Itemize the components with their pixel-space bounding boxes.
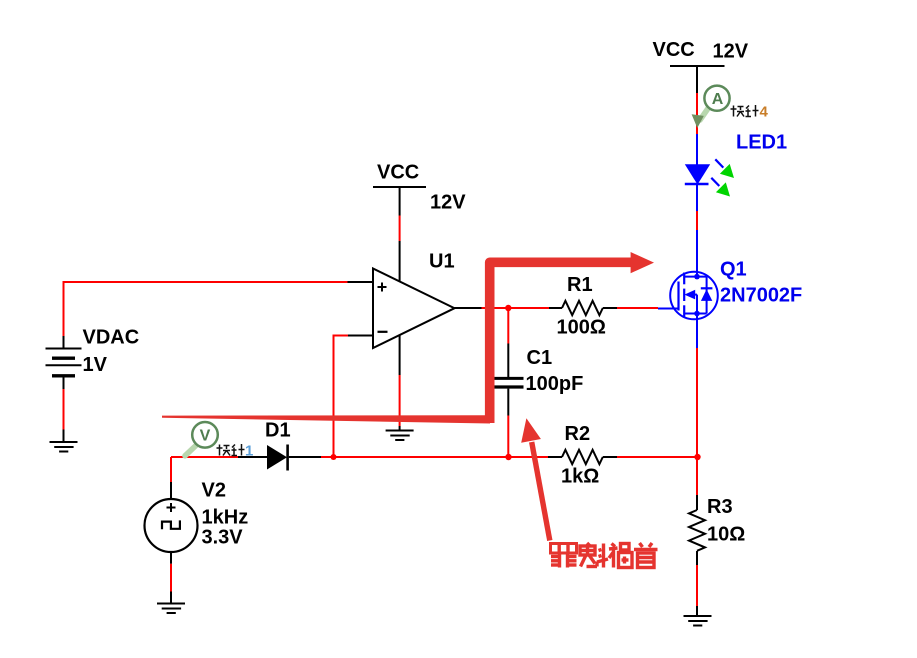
svg-text:100pF: 100pF [526, 373, 584, 395]
wire op-amp power through triangle [399, 241, 401, 375]
resistor R1 [557, 274, 606, 339]
svg-text:R1: R1 [567, 274, 593, 296]
wire VCC bar to op-amp (black lead) [399, 187, 401, 216]
capacitor C1 bottom wire (red) [507, 416, 509, 458]
node junction inverting-input / bottom rail [331, 454, 337, 460]
wire op-amp output lead (black) [455, 307, 482, 309]
wire VDAC positive lead (black) [63, 336, 65, 348]
power rail VCC (op-amp supply) [373, 162, 426, 188]
wire VDAC top lead (red) [63, 281, 65, 336]
svg-text:100Ω: 100Ω [557, 317, 606, 339]
power rail VCC (LED branch) [653, 39, 725, 66]
svg-text:4: 4 [760, 104, 769, 121]
resistor R1 lead left (black) [549, 307, 562, 309]
svg-text:V2: V2 [202, 480, 226, 502]
resistor R2 lead left (black) [548, 456, 562, 458]
wire Q1 drain lead (blue) [696, 230, 698, 277]
diode D1 [265, 420, 291, 471]
svg-text:V: V [200, 427, 211, 444]
annotation thick arrow to Q1 (elbow path) [490, 262, 632, 423]
annotation text 罪魁祸首 (char 祸) [609, 544, 632, 568]
probe A (探针4) [692, 86, 730, 128]
node junction output / C1 [505, 305, 511, 311]
wire VDAC ground lead (black) [63, 430, 65, 443]
wire R2 to R3 node (red) [617, 456, 698, 458]
svg-text:1: 1 [245, 443, 253, 460]
wire V2 to ground (red) [170, 564, 172, 592]
wire LED cathode (blue) [696, 185, 698, 211]
wire R3 to ground (red) [696, 565, 698, 606]
wire non-inverting input rail (red, from VDAC) [63, 281, 348, 283]
wire VDAC to ground (red) [63, 389, 65, 430]
wire op-amp ground lead (black) [399, 426, 401, 431]
wire non-inverting input lead (black) [348, 281, 374, 283]
svg-text:12V: 12V [713, 41, 749, 63]
wire V2 top lead (black) [170, 482, 172, 499]
svg-text:LED1: LED1 [736, 132, 787, 154]
ground (op-amp) [386, 431, 414, 441]
wire LED anode (blue) [696, 134, 698, 165]
wire bottom rail from V2 corner (red) [171, 456, 238, 458]
wire op-amp to ground (red segment) [399, 375, 401, 426]
capacitor C1 top wire (red) [507, 308, 509, 344]
wire Q1 gate lead (blue) [658, 308, 679, 310]
svg-text:10Ω: 10Ω [707, 524, 745, 546]
annotation arrow to C1 (shaft) [532, 442, 550, 541]
svg-text:1V: 1V [83, 354, 108, 376]
node junction C1 / bottom rail [505, 454, 511, 460]
wire inverting input (red corner) [334, 336, 349, 458]
wire V2 bottom lead (black) [170, 552, 172, 564]
svg-text:VCC: VCC [653, 39, 695, 61]
LED LED1 [685, 159, 734, 196]
annotation thick arrow to Q1 (tapered tail) [162, 415, 490, 423]
diode D1 anode lead (black) [238, 456, 267, 458]
wire inverting input lead (black) [348, 335, 373, 337]
wire VCC bar down (black) [696, 66, 698, 93]
annotation arrowhead at C1 [521, 418, 541, 443]
diode D1 cathode lead (black) [289, 456, 321, 458]
wire VCC to LED (red) [696, 93, 698, 134]
annotation arrowhead at Q1 [631, 252, 654, 273]
annotation text 罪魁祸首 (char 首) [634, 543, 658, 568]
svg-text:C1: C1 [527, 347, 553, 369]
svg-text:Q1: Q1 [720, 259, 747, 281]
wire VCC to op-amp (red segment) [399, 216, 401, 242]
resistor R2 lead right (black) [603, 456, 617, 458]
svg-text:12V: 12V [430, 192, 466, 214]
transistor Q1 (2N7002F NMOS) [670, 272, 718, 320]
capacitor C1 [495, 347, 584, 395]
wire R1 to Q1 gate (red) [617, 307, 658, 309]
svg-text:R2: R2 [565, 423, 591, 445]
probe label 探针1 [217, 444, 245, 456]
annotation text 罪魁祸首 (char 罪) [551, 544, 577, 568]
resistor R3 lead top (black) [696, 495, 698, 510]
resistor R2 [561, 423, 603, 488]
op-amp U1 [373, 251, 455, 349]
resistor R1 lead right (black) [603, 307, 617, 309]
wire V2 ground lead (black) [170, 592, 172, 604]
capacitor C1 top lead (black) [507, 344, 509, 378]
wire V2 top lead (red) [170, 457, 172, 482]
wire Q1 source lead (blue) [696, 314, 698, 349]
wire bottom rail D1 to R2 (red) [321, 456, 548, 458]
node junction R2 / R3 [694, 454, 700, 460]
capacitor C1 bottom lead (black) [507, 389, 509, 416]
wire LED to Q1 (red segment) [696, 211, 698, 230]
wire Q1 source to R3 node (red) [696, 348, 698, 495]
probe label 探针4 [731, 105, 759, 117]
svg-text:1kΩ: 1kΩ [561, 466, 599, 488]
svg-text:R3: R3 [707, 496, 733, 518]
ground (R3) [684, 616, 712, 626]
probe V (探针1) [185, 422, 218, 456]
svg-text:A: A [712, 91, 724, 108]
resistor R3 [689, 496, 745, 551]
svg-text:3.3V: 3.3V [202, 527, 244, 549]
wire VDAC negative lead (black) [63, 377, 65, 390]
ground (V2) [157, 604, 185, 614]
source V2 (pulse source) [145, 480, 249, 553]
resistor R3 lead bottom (black) [696, 551, 698, 565]
wire output to R1 (red) [482, 307, 550, 309]
ground (VDAC) [50, 442, 78, 452]
svg-text:D1: D1 [265, 420, 291, 442]
svg-text:2N7002F: 2N7002F [720, 285, 802, 307]
battery VDAC [46, 349, 82, 376]
wire R3 ground lead (black) [696, 606, 698, 616]
svg-text:1kHz: 1kHz [202, 507, 249, 529]
svg-text:U1: U1 [429, 251, 455, 273]
svg-text:VCC: VCC [377, 162, 419, 184]
svg-text:VDAC: VDAC [83, 327, 140, 349]
annotation text 罪魁祸首 (char 魁) [580, 543, 608, 568]
